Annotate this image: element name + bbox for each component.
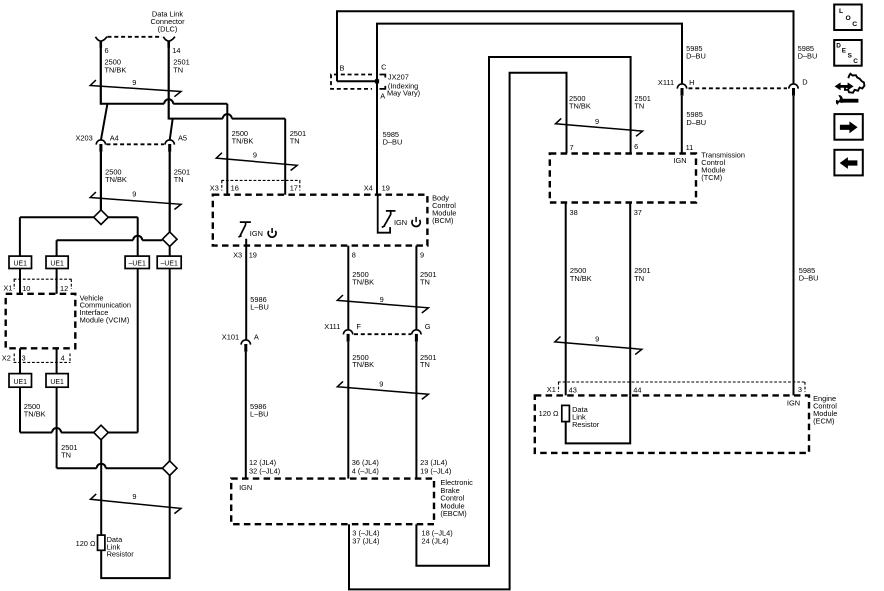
ignition switch right (BCM) xyxy=(378,195,390,233)
svg-text:UE1: UE1 xyxy=(50,379,64,386)
connector X203-A5 xyxy=(165,140,174,145)
svg-text:(TCM): (TCM) xyxy=(701,173,722,182)
svg-text:IGN: IGN xyxy=(239,483,252,492)
svg-text:D–BU: D–BU xyxy=(799,273,819,282)
twisted pair 9 (ECM) xyxy=(555,337,642,355)
wire bus 2500 horizontal xyxy=(101,99,228,104)
wire UE1b to X1-12 xyxy=(56,269,58,294)
svg-text:37: 37 xyxy=(634,208,642,217)
wire splice rail 2501 xyxy=(57,236,163,256)
svg-text:9: 9 xyxy=(132,78,136,87)
svg-text:TN/BK: TN/BK xyxy=(105,175,127,184)
connector UE1 b xyxy=(46,256,68,268)
svg-text:X1: X1 xyxy=(3,283,12,292)
wire resistor bottom loop xyxy=(101,476,170,579)
wire X101 down xyxy=(245,352,247,479)
svg-text:–UE1: –UE1 xyxy=(129,260,146,267)
wire bus 2501 horizontal xyxy=(169,114,286,119)
svg-text:X111: X111 xyxy=(658,78,674,87)
svg-text:IGN: IGN xyxy=(787,398,800,407)
svg-text:120 Ω: 120 Ω xyxy=(539,409,559,418)
svg-text:S: S xyxy=(848,53,853,60)
DLC terminal pin 14 xyxy=(163,37,175,42)
connector D xyxy=(789,84,798,89)
X111 F-G dashed link xyxy=(354,333,411,335)
svg-text:D–BU: D–BU xyxy=(798,52,818,61)
connector UE1 a xyxy=(9,256,32,268)
wire F down xyxy=(347,342,349,479)
svg-text:44: 44 xyxy=(633,386,641,395)
svg-text:A5: A5 xyxy=(178,133,187,142)
svg-text:TN: TN xyxy=(174,175,184,184)
svg-text:D: D xyxy=(836,43,841,50)
wire splice rail 2500 xyxy=(20,217,138,256)
svg-text:X2: X2 xyxy=(2,353,11,362)
twisted pair 9 (X203) xyxy=(90,192,181,209)
svg-text:L–BU: L–BU xyxy=(250,409,269,418)
svg-text:X1: X1 xyxy=(547,385,556,394)
svg-text:A4: A4 xyxy=(110,133,119,142)
icon LOC box xyxy=(834,5,862,31)
svg-text:(BCM): (BCM) xyxy=(432,216,453,225)
wire X2-3 down xyxy=(19,348,21,373)
JX207 connector box xyxy=(331,75,372,89)
svg-text:9: 9 xyxy=(380,295,384,304)
svg-text:38: 38 xyxy=(570,208,578,217)
svg-text:19: 19 xyxy=(249,251,257,260)
junction JX207 xyxy=(375,79,379,83)
svg-text:TN/BK: TN/BK xyxy=(105,65,127,74)
svg-text:120 Ω: 120 Ω xyxy=(76,539,96,548)
svg-text:9: 9 xyxy=(379,380,383,389)
svg-text:TN/BK: TN/BK xyxy=(352,277,374,286)
svg-text:TN/BK: TN/BK xyxy=(569,102,591,111)
svg-text:TN: TN xyxy=(173,65,183,74)
svg-text:X101: X101 xyxy=(222,333,239,342)
resistor 120ohm (left) xyxy=(98,535,105,550)
svg-text:F: F xyxy=(356,322,361,331)
wire X3-16 down xyxy=(226,104,228,195)
svg-text:43: 43 xyxy=(569,386,577,395)
svg-text:O: O xyxy=(846,15,851,22)
wire top bus 2 (5985) xyxy=(377,24,682,195)
wire X3-17 down xyxy=(284,119,286,195)
svg-text:X4: X4 xyxy=(364,183,373,192)
wire EBCM 18/24 route xyxy=(416,57,630,566)
DLC terminal pin 6 xyxy=(96,37,108,42)
svg-text:C: C xyxy=(852,21,857,28)
twisted pair 9 (above EBCM) xyxy=(337,381,428,399)
svg-text:TN: TN xyxy=(61,450,71,459)
svg-text:16: 16 xyxy=(231,184,239,193)
svg-text:B: B xyxy=(340,63,345,72)
wire A5 down xyxy=(169,152,171,233)
svg-text:8: 8 xyxy=(352,251,356,260)
X203 dashed link xyxy=(107,143,165,145)
wire A4 down xyxy=(100,152,102,211)
svg-text:A: A xyxy=(380,91,385,100)
connector -UE1 a xyxy=(125,256,149,268)
power icon left xyxy=(268,231,276,237)
wire X2-4 down xyxy=(56,348,58,373)
connector X111-G xyxy=(412,330,421,335)
wire EBCM 3/37 route xyxy=(349,73,567,590)
svg-text:X203: X203 xyxy=(76,133,93,142)
wire BCM-9 down xyxy=(415,246,417,330)
svg-text:TN/BK: TN/BK xyxy=(570,274,592,283)
power icon right xyxy=(412,220,420,227)
svg-text:D–BU: D–BU xyxy=(383,138,403,147)
wire DLC-14 down xyxy=(168,47,170,120)
X2 connector row xyxy=(14,361,71,363)
svg-text:D–BU: D–BU xyxy=(686,118,706,127)
ignition switch left (BCM) xyxy=(238,222,251,237)
connector X111-H xyxy=(677,84,686,89)
svg-text:9: 9 xyxy=(132,190,136,199)
svg-text:L–BU: L–BU xyxy=(250,303,268,312)
svg-text:24 (JL4): 24 (JL4) xyxy=(422,537,449,546)
wire TCM-37 down xyxy=(629,203,631,396)
EBCM module box xyxy=(231,479,434,525)
svg-text:X111: X111 xyxy=(324,322,340,331)
connector UE1 c xyxy=(9,374,32,388)
wire TCM-38 down xyxy=(565,203,567,396)
X3 connector row xyxy=(221,179,300,181)
svg-text:11: 11 xyxy=(686,143,694,152)
svg-text:UE1: UE1 xyxy=(50,260,64,267)
wire jog to A5 xyxy=(170,119,173,140)
svg-text:TN: TN xyxy=(420,277,430,286)
DLC connector dashed link xyxy=(108,36,163,38)
X1 connector row xyxy=(14,278,72,280)
wire DLC-6 down xyxy=(100,47,102,105)
svg-text:6: 6 xyxy=(634,142,638,151)
svg-text:C: C xyxy=(853,58,858,65)
X1 connector row (ECM) xyxy=(558,381,806,383)
svg-text:IGN: IGN xyxy=(673,156,686,165)
wire G down xyxy=(415,342,417,479)
svg-text:X3: X3 xyxy=(233,251,242,260)
wire 2500 below UE1 xyxy=(19,387,21,432)
svg-text:TN/BK: TN/BK xyxy=(232,136,254,145)
svg-text:Module (VCIM): Module (VCIM) xyxy=(80,316,130,325)
svg-text:G: G xyxy=(425,322,431,331)
wire D down to ECM-3 xyxy=(793,96,795,395)
svg-text:TN/BK: TN/BK xyxy=(352,360,374,369)
svg-text:A: A xyxy=(254,333,259,342)
svg-text:9: 9 xyxy=(595,117,599,126)
wire BCM X3-19 xyxy=(245,239,247,340)
wire resistor loop (ECM) xyxy=(566,395,631,443)
svg-text:9: 9 xyxy=(253,151,257,160)
svg-text:10: 10 xyxy=(22,284,30,293)
svg-text:IGN: IGN xyxy=(250,229,263,238)
twisted pair 9 (TCM) xyxy=(556,118,643,136)
svg-text:19: 19 xyxy=(382,183,390,192)
svg-text:14: 14 xyxy=(172,46,180,55)
wire to -UE1 upper xyxy=(137,217,139,256)
svg-text:Resistor: Resistor xyxy=(107,550,135,559)
VCIM module box xyxy=(6,294,76,349)
X111 H-D dashed link xyxy=(689,87,788,89)
svg-text:C: C xyxy=(381,62,387,71)
svg-text:TN: TN xyxy=(634,102,644,111)
svg-text:TN/BK: TN/BK xyxy=(24,409,46,418)
svg-text:D–BU: D–BU xyxy=(686,52,706,61)
connector -UE1 b xyxy=(157,256,181,268)
wire -UE1a down xyxy=(137,269,139,433)
svg-text:9: 9 xyxy=(595,335,599,344)
svg-text:32 (–JL4): 32 (–JL4) xyxy=(249,467,280,476)
svg-text:4 (–JL4): 4 (–JL4) xyxy=(352,467,379,476)
svg-text:19 (–JL4): 19 (–JL4) xyxy=(420,467,451,476)
svg-text:H: H xyxy=(689,78,694,87)
splice diamond 2500 xyxy=(94,210,109,225)
svg-text:3: 3 xyxy=(798,385,802,394)
svg-text:17: 17 xyxy=(290,184,298,193)
splice diamond lower 2500 xyxy=(94,425,109,440)
svg-text:9: 9 xyxy=(132,492,136,501)
wire jog to A4 xyxy=(101,105,107,141)
svg-text:37 (JL4): 37 (JL4) xyxy=(352,537,379,546)
twisted pair 9 (resistor loop) xyxy=(91,494,182,514)
resistor 120ohm (ECM) xyxy=(562,405,570,421)
svg-text:E: E xyxy=(842,47,847,54)
svg-text:TN: TN xyxy=(420,360,430,369)
svg-text:UE1: UE1 xyxy=(14,260,28,267)
BCM module box xyxy=(213,195,428,246)
twisted pair 9 (X3) xyxy=(216,153,297,171)
svg-text:3: 3 xyxy=(22,353,26,362)
wire lower rail 2500 xyxy=(20,428,138,433)
svg-text:(ECM): (ECM) xyxy=(813,417,834,426)
svg-text:–UE1: –UE1 xyxy=(161,260,178,267)
svg-text:12: 12 xyxy=(60,284,68,293)
wire diamond to resistor xyxy=(100,440,102,535)
twisted pair 9 (below BCM) xyxy=(337,295,428,313)
svg-text:L: L xyxy=(839,8,843,15)
splice diamond 2501 xyxy=(162,232,177,247)
icon next-arrow box xyxy=(834,114,862,140)
connector X203-A4 xyxy=(96,140,105,145)
wire -UE1b down xyxy=(169,269,171,461)
wire UE1a to X1-10 xyxy=(19,269,21,294)
svg-text:IGN: IGN xyxy=(394,218,407,227)
svg-text:D: D xyxy=(802,78,807,87)
wire 2501 below UE1 xyxy=(56,387,58,468)
svg-text:9: 9 xyxy=(420,251,424,260)
twisted pair 9 (DLC) xyxy=(90,80,181,97)
ECM module box xyxy=(535,395,809,453)
wire BCM-8 down xyxy=(347,246,349,330)
TCM module box xyxy=(550,154,696,203)
svg-text:JX207: JX207 xyxy=(388,72,409,81)
svg-text:UE1: UE1 xyxy=(14,379,28,386)
svg-text:May Vary): May Vary) xyxy=(387,89,420,98)
wire diamond to -UE1 xyxy=(169,247,171,257)
wire lower rail 2501 xyxy=(57,464,163,469)
connector X101-A xyxy=(241,340,250,345)
connector X111-F xyxy=(343,330,352,335)
icon back-arrow box xyxy=(834,150,862,176)
icon DESC box xyxy=(834,40,862,66)
svg-text:TN: TN xyxy=(290,136,300,145)
splice diamond lower 2501 xyxy=(162,461,177,476)
svg-text:(EBCM): (EBCM) xyxy=(440,509,466,518)
wire H down to TCM-11 xyxy=(681,96,683,154)
connector UE1 d xyxy=(46,374,68,388)
svg-text:7: 7 xyxy=(570,143,574,152)
svg-text:X3: X3 xyxy=(210,184,219,193)
svg-text:4: 4 xyxy=(61,353,65,362)
svg-text:TN: TN xyxy=(634,274,644,283)
svg-text:(DLC): (DLC) xyxy=(158,24,178,33)
svg-text:Resistor: Resistor xyxy=(572,420,600,429)
icon vehicle-repair xyxy=(835,82,854,90)
wire top bus 1 (5985) xyxy=(337,11,794,83)
svg-text:6: 6 xyxy=(105,46,109,55)
